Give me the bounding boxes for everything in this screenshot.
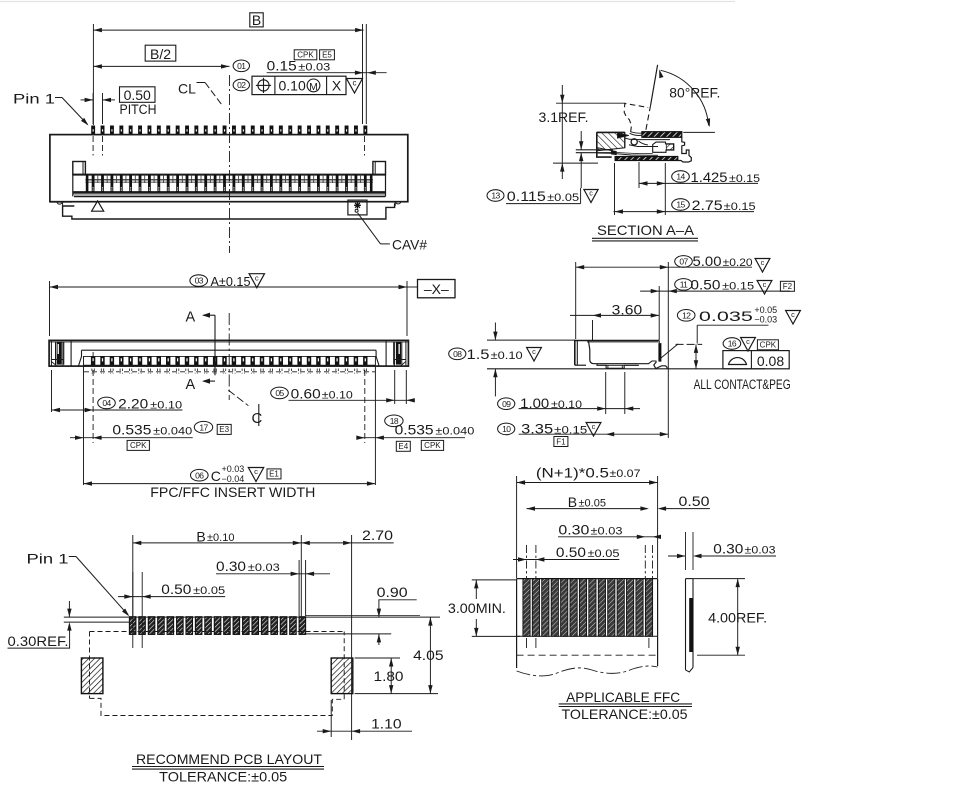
front view teeth — [91, 356, 95, 365]
svg-text:0.50: 0.50 — [124, 87, 151, 103]
svg-text:0.30: 0.30 — [558, 522, 589, 538]
svg-text:RECOMMEND PCB LAYOUT: RECOMMEND PCB LAYOUT — [136, 751, 322, 767]
svg-text:c: c — [255, 273, 259, 282]
svg-text:0.60: 0.60 — [291, 386, 321, 402]
svg-text:C: C — [211, 468, 221, 484]
dimension A+-0.15 (balloon 3) — [190, 275, 208, 287]
svg-text:F1: F1 — [556, 437, 566, 446]
section lever line 80 deg — [651, 65, 658, 105]
svg-text:B: B — [196, 529, 205, 545]
svg-text:c: c — [589, 190, 593, 198]
balloon 10 : 3.35 dim — [498, 423, 515, 435]
svg-text:03: 03 — [195, 276, 204, 286]
svg-text:0.50: 0.50 — [690, 277, 720, 293]
svg-text:B: B — [252, 12, 261, 28]
svg-text:±0.10: ±0.10 — [207, 532, 234, 544]
dimension 0.50 PITCH — [120, 87, 156, 103]
top view contact band — [73, 174, 386, 176]
svg-text:E5: E5 — [322, 51, 332, 60]
svg-text:3.00MIN.: 3.00MIN. — [448, 600, 506, 616]
svg-text:CL: CL — [178, 81, 196, 97]
front view left end cap — [50, 340, 52, 366]
pcb reference lines — [64, 616, 440, 618]
svg-text:±0.040: ±0.040 — [153, 426, 192, 438]
svg-text:C: C — [252, 410, 263, 427]
section ffc mouth — [597, 148, 613, 151]
svg-text:14: 14 — [676, 172, 685, 182]
svg-text:±0.05: ±0.05 — [193, 585, 225, 597]
svg-text:0.30: 0.30 — [713, 541, 743, 557]
svg-text:80°REF.: 80°REF. — [669, 85, 720, 101]
svg-text:X: X — [332, 77, 342, 93]
balloon 16 : contact flatness frame — [723, 338, 741, 350]
balloon 12 : 0.035 dim — [677, 310, 695, 322]
balloon 18 : 0.535 dim right — [364, 370, 366, 443]
svg-text:TOLERANCE:±0.05: TOLERANCE:±0.05 — [562, 706, 688, 722]
front view right end cap — [405, 340, 407, 366]
pcb dashed connector outline — [90, 631, 345, 633]
side view — [449, 253, 801, 446]
svg-text:09: 09 — [502, 399, 511, 409]
side view contact black tip — [658, 343, 661, 362]
svg-text:CPK: CPK — [424, 441, 441, 450]
svg-text:0.90: 0.90 — [377, 584, 408, 600]
balloon 11 : 0.50 dim — [675, 279, 693, 291]
balloon 14 : 1.425 dim — [638, 162, 640, 188]
svg-text:±0.05: ±0.05 — [588, 548, 620, 560]
balloon 13 : 0.115 dim — [580, 131, 582, 150]
svg-text:B/2: B/2 — [150, 46, 171, 62]
centerline top view — [229, 75, 231, 253]
svg-text:–X–: –X– — [424, 281, 449, 297]
svg-text:11: 11 — [680, 280, 688, 290]
svg-text:±0.03: ±0.03 — [745, 545, 776, 557]
svg-text:±0.15: ±0.15 — [554, 425, 587, 437]
svg-text:2.75: 2.75 — [692, 197, 723, 213]
balloon 4 : 2.20 dim — [51, 370, 53, 412]
svg-text:±0.10: ±0.10 — [322, 390, 353, 402]
ffc conductors — [523, 579, 530, 637]
centre line leader and symbol — [228, 390, 248, 406]
svg-text:CPK: CPK — [297, 51, 314, 60]
svg-text:Pin 1: Pin 1 — [13, 91, 55, 107]
faint page edge artifact — [0, 1, 735, 3]
svg-text:16: 16 — [728, 339, 737, 349]
front view center line — [228, 313, 230, 400]
svg-text:17: 17 — [199, 422, 208, 432]
svg-text:±0.03: ±0.03 — [591, 526, 623, 538]
svg-text:0.30: 0.30 — [216, 558, 246, 574]
svg-text:0.535: 0.535 — [395, 422, 434, 438]
svg-text:0.50: 0.50 — [161, 581, 191, 597]
svg-text:13: 13 — [491, 191, 500, 201]
svg-text:0.15: 0.15 — [267, 57, 297, 73]
top view right ear — [373, 162, 386, 175]
svg-text:PITCH: PITCH — [120, 102, 157, 117]
top view left ear — [73, 162, 86, 175]
svg-text:1.425: 1.425 — [691, 169, 728, 185]
svg-text:SECTION A–A: SECTION A–A — [597, 222, 695, 238]
balloon 1 : 0.15 +/-0.03 — [233, 60, 249, 72]
svg-text:c: c — [761, 258, 765, 267]
svg-text:CAV#: CAV# — [392, 237, 427, 253]
svg-text:E1: E1 — [269, 470, 279, 479]
svg-text:−0.04: −0.04 — [222, 474, 245, 484]
svg-text:M: M — [309, 81, 318, 93]
svg-text:±0.03: ±0.03 — [298, 61, 330, 73]
tag E5 — [320, 50, 335, 60]
svg-text:Pin 1: Pin 1 — [27, 551, 69, 567]
svg-text:0.50: 0.50 — [556, 544, 586, 560]
section A-A view — [487, 65, 760, 241]
top view pin row — [91, 126, 95, 135]
svg-text:F2: F2 — [783, 282, 793, 291]
svg-text:c: c — [254, 467, 258, 476]
svg-text:±0.03: ±0.03 — [248, 562, 280, 574]
svg-text:2.20: 2.20 — [118, 396, 148, 412]
svg-text:±0.07: ±0.07 — [610, 468, 641, 480]
CAV# leader and label — [358, 213, 381, 244]
svg-text:15: 15 — [676, 200, 685, 210]
svg-text:(N+1)*0.5: (N+1)*0.5 — [536, 465, 609, 481]
svg-text:FPC/FFC INSERT WIDTH: FPC/FFC INSERT WIDTH — [150, 484, 315, 500]
svg-text:A: A — [186, 309, 196, 325]
svg-text:0.535: 0.535 — [112, 422, 151, 438]
svg-text:04: 04 — [102, 398, 111, 408]
front view body outline — [49, 340, 408, 366]
balloon 2 : position tolerance frame — [233, 79, 249, 91]
svg-text:0.10: 0.10 — [279, 77, 306, 93]
top view bottom flange — [50, 201, 72, 203]
dimension 3.1REF — [561, 85, 563, 179]
balloon 9 : 1.00 dim — [605, 372, 607, 414]
svg-text:E4: E4 — [398, 442, 408, 451]
ffc break line — [517, 666, 658, 676]
section contact details — [631, 139, 637, 145]
svg-text:±0.10: ±0.10 — [491, 350, 523, 362]
balloon 15 : 2.75 dim — [672, 199, 690, 211]
svg-text:0.30REF.: 0.30REF. — [8, 633, 69, 649]
svg-text:1.80: 1.80 — [374, 668, 404, 684]
svg-text:ALL CONTACT&PEG: ALL CONTACT&PEG — [694, 377, 791, 392]
svg-text:1.5: 1.5 — [467, 346, 490, 362]
svg-text:4.05: 4.05 — [413, 647, 444, 663]
CAV marking box — [348, 200, 367, 215]
front view insert slot — [82, 349, 377, 351]
svg-text:−0.03: −0.03 — [754, 315, 777, 325]
polarity triangle mark — [92, 201, 104, 211]
ffc front outline — [517, 578, 658, 580]
svg-text:+0.03: +0.03 — [222, 464, 245, 474]
svg-text:+0.05: +0.05 — [754, 305, 777, 315]
svg-text:E3: E3 — [219, 425, 229, 434]
svg-text:02: 02 — [237, 80, 246, 90]
svg-text:c: c — [532, 347, 536, 356]
dimension B/2 — [145, 45, 176, 61]
svg-text:0.08: 0.08 — [757, 353, 784, 369]
balloon 17 : 0.535 dim left — [83, 356, 85, 485]
balloon 7 : 5.00 dim — [575, 262, 577, 339]
svg-text:A: A — [186, 377, 196, 393]
svg-text:06: 06 — [195, 470, 204, 480]
svg-text:08: 08 — [453, 349, 462, 359]
applicable FFC view — [448, 465, 776, 723]
svg-text:±0.05: ±0.05 — [579, 497, 606, 509]
side view body profile — [575, 341, 659, 366]
svg-text:0.115: 0.115 — [507, 188, 546, 204]
section right wall and smt foot — [678, 137, 692, 162]
pcb pad row — [129, 617, 136, 635]
dimension B — [250, 13, 263, 27]
ffc side profile — [685, 579, 687, 670]
svg-text:CPK: CPK — [130, 441, 147, 450]
section FFC tail lines — [576, 149, 613, 151]
section contact hook — [653, 142, 674, 152]
svg-text:c: c — [746, 337, 750, 346]
balloon 6 : C insert width dim — [191, 469, 209, 481]
svg-text:1.10: 1.10 — [371, 716, 402, 732]
side view pcb baseline — [487, 368, 765, 370]
recommended pcb layout view — [8, 527, 444, 785]
svg-text:12: 12 — [682, 310, 691, 320]
svg-text:±0.040: ±0.040 — [435, 426, 474, 438]
svg-text:10: 10 — [502, 424, 511, 434]
ffc conductor centerline ticks below — [526, 638, 528, 648]
section body left block (hatched) — [597, 132, 625, 150]
svg-text:CPK: CPK — [760, 341, 777, 350]
tag CPK — [294, 50, 317, 60]
dimension 0.30 ffc thickness — [685, 532, 687, 570]
section top strip (hatched) — [642, 132, 682, 138]
svg-text:±0.05: ±0.05 — [547, 192, 579, 204]
80 deg arc with arrows — [661, 70, 709, 125]
svg-text:05: 05 — [275, 388, 284, 398]
side view smt foot curl — [654, 362, 667, 369]
svg-text:01: 01 — [237, 61, 246, 71]
svg-text:APPLICABLE FFC: APPLICABLE FFC — [566, 689, 680, 705]
front view — [49, 273, 474, 500]
svg-text:c: c — [763, 280, 767, 289]
svg-text:c: c — [353, 79, 357, 88]
balloon 5 : 0.60 dim — [394, 370, 396, 404]
pcb mount pad right — [331, 658, 353, 694]
svg-text:TOLERANCE:±0.05: TOLERANCE:±0.05 — [159, 769, 287, 785]
svg-text:2.70: 2.70 — [362, 527, 393, 543]
svg-text:c: c — [791, 310, 795, 319]
section bottom strip (hatched) — [615, 157, 678, 161]
svg-text:c: c — [592, 422, 596, 431]
svg-text:3.1REF.: 3.1REF. — [539, 109, 589, 125]
side view feet pocket — [597, 364, 639, 369]
pcb mount pad left — [81, 658, 103, 694]
svg-text:0.50: 0.50 — [679, 493, 710, 509]
top view body outline — [50, 135, 408, 202]
svg-text:07: 07 — [679, 257, 688, 267]
-X- datum box — [407, 286, 418, 288]
top view contact teeth — [92, 175, 95, 193]
svg-text:0.035: 0.035 — [699, 308, 753, 324]
top view: connector top — [50, 75, 427, 253]
section actuator lever dashed (open) — [624, 103, 648, 132]
svg-text:B: B — [568, 494, 577, 510]
front view hidden dashes under body — [84, 371, 375, 373]
balloon 8 : 1.5 height dim — [449, 348, 466, 360]
